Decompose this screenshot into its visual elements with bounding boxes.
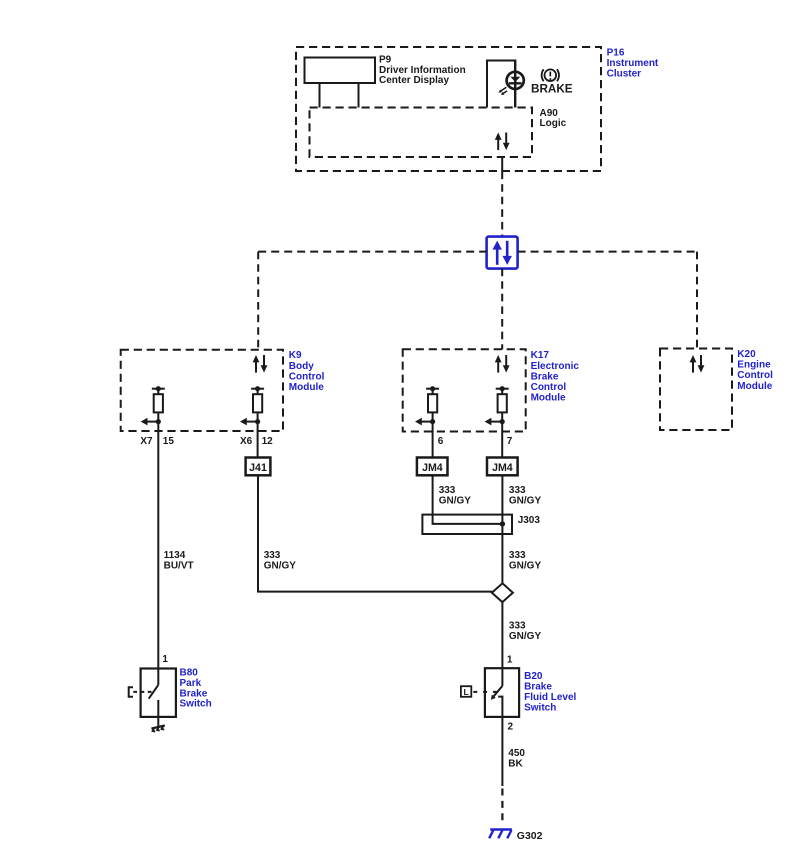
driver K9 right — [240, 386, 264, 431]
svg-text:333: 333 — [509, 550, 526, 561]
label K20 Engine Control Module — [737, 349, 773, 392]
wire JM4 right through J303 to diamond — [501, 475, 503, 583]
svg-text:Control: Control — [289, 371, 325, 382]
wire K17 left to JM4 — [432, 431, 434, 458]
svg-text:K17: K17 — [531, 350, 550, 361]
driver K17 left — [415, 386, 439, 431]
wire serial data drop to K17 (dashed) — [501, 269, 503, 350]
svg-text:Center Display: Center Display — [379, 75, 449, 86]
serial data arrows in A90 — [495, 133, 510, 151]
driver K9 left — [141, 386, 165, 431]
wire JM4 left to J303 — [432, 475, 434, 514]
svg-text:X7: X7 — [140, 436, 153, 447]
serial data arrows in K17 — [495, 355, 510, 373]
svg-text:Cluster: Cluster — [607, 69, 642, 80]
label B20 Brake Fluid Level Switch — [524, 671, 576, 714]
wire serial data drop to K9 (dashed) — [257, 252, 259, 350]
svg-text:GN/GY: GN/GY — [264, 560, 297, 571]
svg-text:GN/GY: GN/GY — [509, 560, 542, 571]
svg-text:15: 15 — [163, 436, 175, 447]
module box K17 Electronic Brake Control Module (dashed) — [403, 349, 526, 431]
svg-text:1134: 1134 — [164, 550, 186, 561]
svg-text:P16: P16 — [607, 48, 625, 59]
brake telltale symbol ((!)) — [542, 69, 559, 81]
wire serial data bus left (dashed) — [258, 251, 486, 253]
svg-text:333: 333 — [509, 485, 526, 496]
svg-text:7: 7 — [507, 436, 513, 447]
svg-text:BK: BK — [508, 758, 523, 769]
wire serial data link (dashed) cluster to gateway — [501, 172, 503, 237]
pin X6 12 — [240, 436, 273, 447]
svg-text:Body: Body — [289, 361, 314, 372]
svg-text:Brake: Brake — [524, 682, 552, 693]
mechanical link dashes (B20) — [473, 691, 499, 693]
label 333 GN/GY (mid) — [509, 550, 542, 572]
mechanical link bracket (B80) — [129, 687, 133, 697]
svg-text:6: 6 — [438, 436, 444, 447]
wire K9 to J41 — [257, 431, 259, 458]
svg-text:Module: Module — [737, 381, 772, 392]
svg-text:G302: G302 — [517, 830, 543, 842]
label 1134 BU/VT — [164, 550, 194, 572]
svg-text:333: 333 — [264, 550, 281, 561]
wire serial data bus right (dashed) — [518, 251, 697, 253]
svg-text:Instrument: Instrument — [607, 58, 659, 69]
svg-text:Switch: Switch — [524, 703, 556, 714]
svg-text:Brake: Brake — [531, 371, 559, 382]
wire B80 feed — [157, 431, 159, 669]
svg-text:JM4: JM4 — [492, 462, 513, 474]
wire P9 right leg — [358, 83, 360, 108]
wire LED branch loop — [487, 61, 515, 108]
switch B20 Brake Fluid Level — [485, 668, 519, 717]
svg-text:L: L — [463, 687, 468, 697]
wire diamond to B20 — [501, 602, 503, 668]
label 333 GN/GY (left branch) — [264, 550, 297, 572]
switch B80 Park Brake — [141, 669, 176, 717]
svg-text:X6: X6 — [240, 436, 253, 447]
svg-text:1: 1 — [507, 655, 513, 666]
svg-text:GN/GY: GN/GY — [509, 631, 542, 642]
connector J41 — [246, 458, 271, 476]
LED indicator lamp — [507, 72, 524, 89]
serial data arrows in K9 — [253, 355, 268, 373]
junction diamond — [492, 583, 513, 602]
wire serial data drop to K20 (dashed) — [696, 252, 698, 349]
svg-text:B20: B20 — [524, 671, 543, 682]
wire P9 left leg — [319, 83, 321, 108]
wire A90 to cluster edge — [501, 157, 503, 172]
label B80 Park Brake Switch — [180, 668, 212, 710]
svg-text:JM4: JM4 — [422, 462, 443, 474]
label 333 GN/GY (right JM4) — [509, 485, 542, 507]
svg-text:333: 333 — [509, 620, 526, 631]
svg-text:GN/GY: GN/GY — [509, 495, 542, 506]
svg-text:Fluid Level: Fluid Level — [524, 692, 576, 703]
svg-text:12: 12 — [262, 436, 274, 447]
ground symbol (B80) — [151, 726, 164, 732]
module box K20 Engine Control Module (dashed) — [660, 349, 732, 431]
label 450 BK — [508, 748, 525, 770]
wire J41 to junction (down then right) — [258, 475, 492, 591]
mechanical link dashes (B80) — [133, 691, 153, 693]
label P9 Driver Information Center Display — [379, 55, 466, 87]
svg-text:Control: Control — [737, 370, 773, 381]
svg-text:1: 1 — [162, 654, 168, 665]
svg-text:Electronic: Electronic — [531, 361, 580, 372]
connector JM4 left — [417, 458, 448, 476]
svg-text:450: 450 — [508, 748, 525, 759]
wire to ground G302 (dashed) — [501, 789, 503, 825]
wire B80 to ground — [157, 717, 159, 727]
svg-text:K9: K9 — [289, 350, 302, 361]
display P9 box — [305, 58, 376, 84]
driver K17 right — [485, 386, 509, 431]
svg-text:BRAKE: BRAKE — [531, 82, 573, 95]
label 333 GN/GY (left JM4) — [439, 485, 472, 507]
svg-text:Control: Control — [531, 382, 567, 393]
svg-text:Module: Module — [531, 393, 566, 404]
label A90 Logic — [540, 108, 567, 129]
wire K17 right to JM4 — [501, 431, 503, 458]
svg-text:Logic: Logic — [540, 118, 567, 129]
svg-text:2: 2 — [508, 721, 514, 732]
svg-text:333: 333 — [439, 485, 456, 496]
svg-text:Switch: Switch — [180, 699, 212, 710]
connector JM4 right — [487, 458, 518, 476]
svg-text:Module: Module — [289, 382, 324, 393]
svg-text:J303: J303 — [518, 515, 541, 526]
logic block A90 (dashed) — [310, 108, 533, 158]
label K17 Electronic Brake Control Module — [531, 350, 580, 403]
LED light emission arrows — [498, 87, 507, 95]
module box K9 Body Control Module (dashed) — [121, 350, 283, 431]
gateway node (blue data box) — [487, 237, 518, 269]
label K9 Body Control Module — [289, 350, 325, 393]
label P16 Instrument Cluster — [607, 48, 659, 80]
label 333 GN/GY (lower) — [509, 620, 542, 642]
module box P16 Instrument Cluster (dashed) — [296, 47, 601, 171]
svg-text:GN/GY: GN/GY — [439, 495, 472, 506]
level sensor box L (B20) — [461, 686, 471, 697]
serial data arrows in K20 — [690, 355, 705, 373]
svg-text:BU/VT: BU/VT — [164, 560, 194, 571]
pin X7 15 — [140, 436, 174, 447]
svg-text:Engine: Engine — [737, 360, 771, 371]
ground G302 symbol — [489, 830, 512, 839]
wire B20 to splice (solid part) — [501, 717, 503, 786]
svg-text:K20: K20 — [737, 349, 756, 360]
splice pack J303 — [422, 515, 512, 534]
svg-text:J41: J41 — [249, 462, 267, 474]
